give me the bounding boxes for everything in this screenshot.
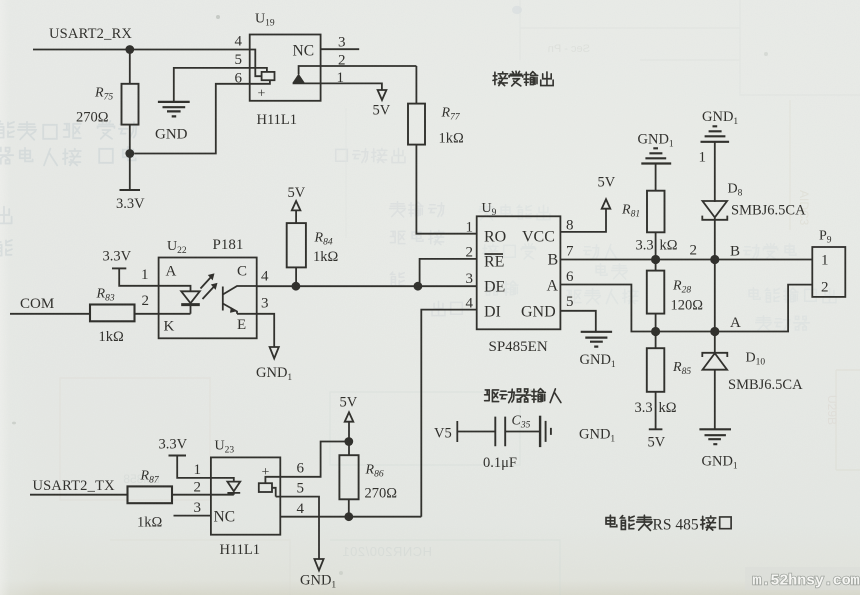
junction dot R86/pin4/DI bbox=[344, 512, 353, 521]
U19 internal pin5 link bbox=[250, 68, 267, 72]
label driver-input (Chinese) bbox=[485, 389, 561, 403]
wire COM to R83 bbox=[10, 313, 90, 315]
U19 internal pin6 link bbox=[250, 80, 270, 84]
wire B line U9 pin7 to P9 pin1 bbox=[560, 259, 812, 261]
wire A to R85 bbox=[655, 332, 657, 349]
power 5V arrow (up) at R86 bbox=[345, 412, 354, 421]
junction dot R28/A bbox=[651, 327, 660, 336]
wire U23 pin4 to DI column bbox=[280, 516, 421, 518]
junction dot D10/A bbox=[710, 327, 719, 336]
terminal 3.3V bar (U23) bbox=[169, 455, 187, 457]
power 5V arrow (up) at U9 VCC bbox=[602, 199, 611, 209]
ground GND1 arrow (U23 pin5) bbox=[314, 559, 323, 571]
wire V5 to C35 bbox=[457, 431, 495, 433]
op-to U19 box H11L1 bbox=[250, 35, 321, 101]
wire R86 bottom bbox=[348, 499, 350, 516]
capacitor C35 bbox=[495, 417, 505, 447]
wire R87 to U23 pin2 bbox=[172, 494, 211, 496]
resistor R87 bbox=[128, 486, 173, 503]
wire U23 pin5 to GND1 bbox=[280, 497, 319, 559]
U19 internal output triangle bbox=[292, 74, 304, 83]
U22 internal light arrows bbox=[201, 277, 215, 300]
wire B to A along diode column bbox=[714, 260, 716, 332]
resistor R77 bbox=[408, 104, 425, 145]
diode D10 TVS SMBJ6.5CA bbox=[714, 332, 716, 356]
wire R83 to U22 pin2 bbox=[135, 313, 159, 315]
svg-text:m.52hnsy.com: m.52hnsy.com bbox=[753, 572, 860, 590]
wire U19 pin1 to 5V bbox=[293, 83, 382, 90]
wire U19 pin2 to R77 bbox=[299, 66, 417, 74]
wire 3.3V to U22 pin1 bbox=[119, 268, 158, 285]
ground GND1 symbol (D10) bbox=[699, 429, 731, 444]
U19 internal pin4 link bbox=[250, 50, 262, 77]
wire GND1 to D8 bbox=[714, 142, 716, 202]
junction dot R84/DE bbox=[292, 282, 301, 291]
wire U19 pin3 NC stub bbox=[321, 48, 360, 50]
wire U23 pin3 stub bbox=[174, 515, 211, 517]
wire U9 GND pin5 bbox=[560, 311, 595, 331]
wire R85 to 5V terminal bbox=[655, 392, 657, 429]
wire R28 to A bbox=[655, 314, 657, 332]
label receive-output (Chinese) bbox=[493, 71, 553, 86]
diode D8 TVS SMBJ6.5CA bbox=[703, 201, 728, 217]
wire U9 VCC to 5V bbox=[560, 209, 606, 232]
decorative bleed-through (not labelled further) bbox=[0, 121, 137, 256]
caption: energy meter RS485 interface (Chinese) bbox=[606, 515, 652, 530]
wire GND1 to R81 bbox=[655, 164, 657, 191]
wire A line U9 pin6 to P9 pin2 bbox=[560, 285, 812, 332]
power 5V arrow (down) at U19 pin1 bbox=[378, 90, 387, 100]
U23 internal LED bbox=[211, 478, 234, 482]
U19 internal input cell box bbox=[262, 72, 275, 80]
wire C35 to chassis bars bbox=[505, 431, 540, 433]
wire D8 to B bbox=[714, 218, 716, 260]
junction dot R75/U19 pin6 net bbox=[125, 149, 134, 158]
IC U9 SP485EN box bbox=[477, 216, 561, 329]
junction dot on USART2_RX at R75 bbox=[125, 45, 134, 54]
resistor R81 bbox=[647, 191, 665, 233]
wire USART2_RX to U19 pin 4 bbox=[33, 49, 250, 51]
U23 internal cell box bbox=[259, 483, 272, 492]
wire U9 DI down to U23 side bbox=[421, 310, 476, 517]
opto U22 P181 box bbox=[159, 258, 257, 339]
wire pin2 net down into R77 bbox=[415, 66, 417, 104]
terminal 5V bar (R85) bbox=[649, 428, 663, 430]
wire D10 to GND1 bbox=[714, 369, 716, 428]
wire R77 bottom to U9 RO bbox=[416, 145, 476, 234]
ground GND symbol bbox=[158, 102, 190, 117]
junction dot RE/DE bbox=[414, 282, 423, 291]
junction dot 5V/R86/pin6 bbox=[344, 437, 353, 446]
wire R75 top bbox=[129, 50, 131, 84]
resistor R86 bbox=[339, 455, 358, 499]
terminal 3.3V bar (U22) bbox=[112, 267, 126, 269]
resistor R83 bbox=[90, 305, 135, 322]
wire U22 pin3 to GND1 bbox=[257, 314, 275, 347]
wire R81 to B bbox=[655, 232, 657, 259]
wire R75 bottom to 3.3V bbox=[129, 125, 131, 190]
connector P9 box bbox=[812, 247, 845, 297]
wire USART2_TX to R87 bbox=[30, 494, 128, 496]
U23 internal pin5 link bbox=[272, 488, 280, 497]
wire U19 pin6 to R75 bottom node bbox=[134, 84, 250, 154]
wire DE line from U22 to U9 bbox=[257, 285, 477, 287]
wire 5V arrow to junction bbox=[348, 422, 350, 456]
ground GND1 symbol (U9 pin5) bbox=[581, 332, 612, 347]
wire U23 pin6 to 5V node bbox=[280, 442, 349, 477]
U22 internal LED bbox=[159, 286, 191, 292]
U22 internal phototransistor bbox=[222, 287, 224, 311]
wire U19 pin5 to GND bbox=[174, 68, 250, 101]
wire B to R28 bbox=[655, 260, 657, 271]
junction dot D8/B bbox=[710, 255, 719, 264]
resistor R75 bbox=[122, 84, 139, 125]
terminal 3.3V bar bbox=[120, 189, 141, 191]
terminal V5 bar bbox=[456, 421, 458, 442]
U23 internal pin6 link bbox=[265, 477, 280, 483]
wire U9 RE to DE junction bbox=[420, 259, 477, 286]
ground sideways bars at C35 bbox=[539, 416, 541, 447]
resistor R28 bbox=[647, 271, 665, 314]
watermark m.52hnsy.com bbox=[745, 567, 860, 590]
resistor R85 bbox=[647, 348, 665, 392]
opto U23 box H11L1 bbox=[211, 457, 280, 534]
ground GND1 arrow (U22 pin3) bbox=[270, 347, 279, 359]
wire 3.3V to U23 pin1 bbox=[177, 456, 211, 478]
junction dot R81/B bbox=[651, 255, 660, 264]
